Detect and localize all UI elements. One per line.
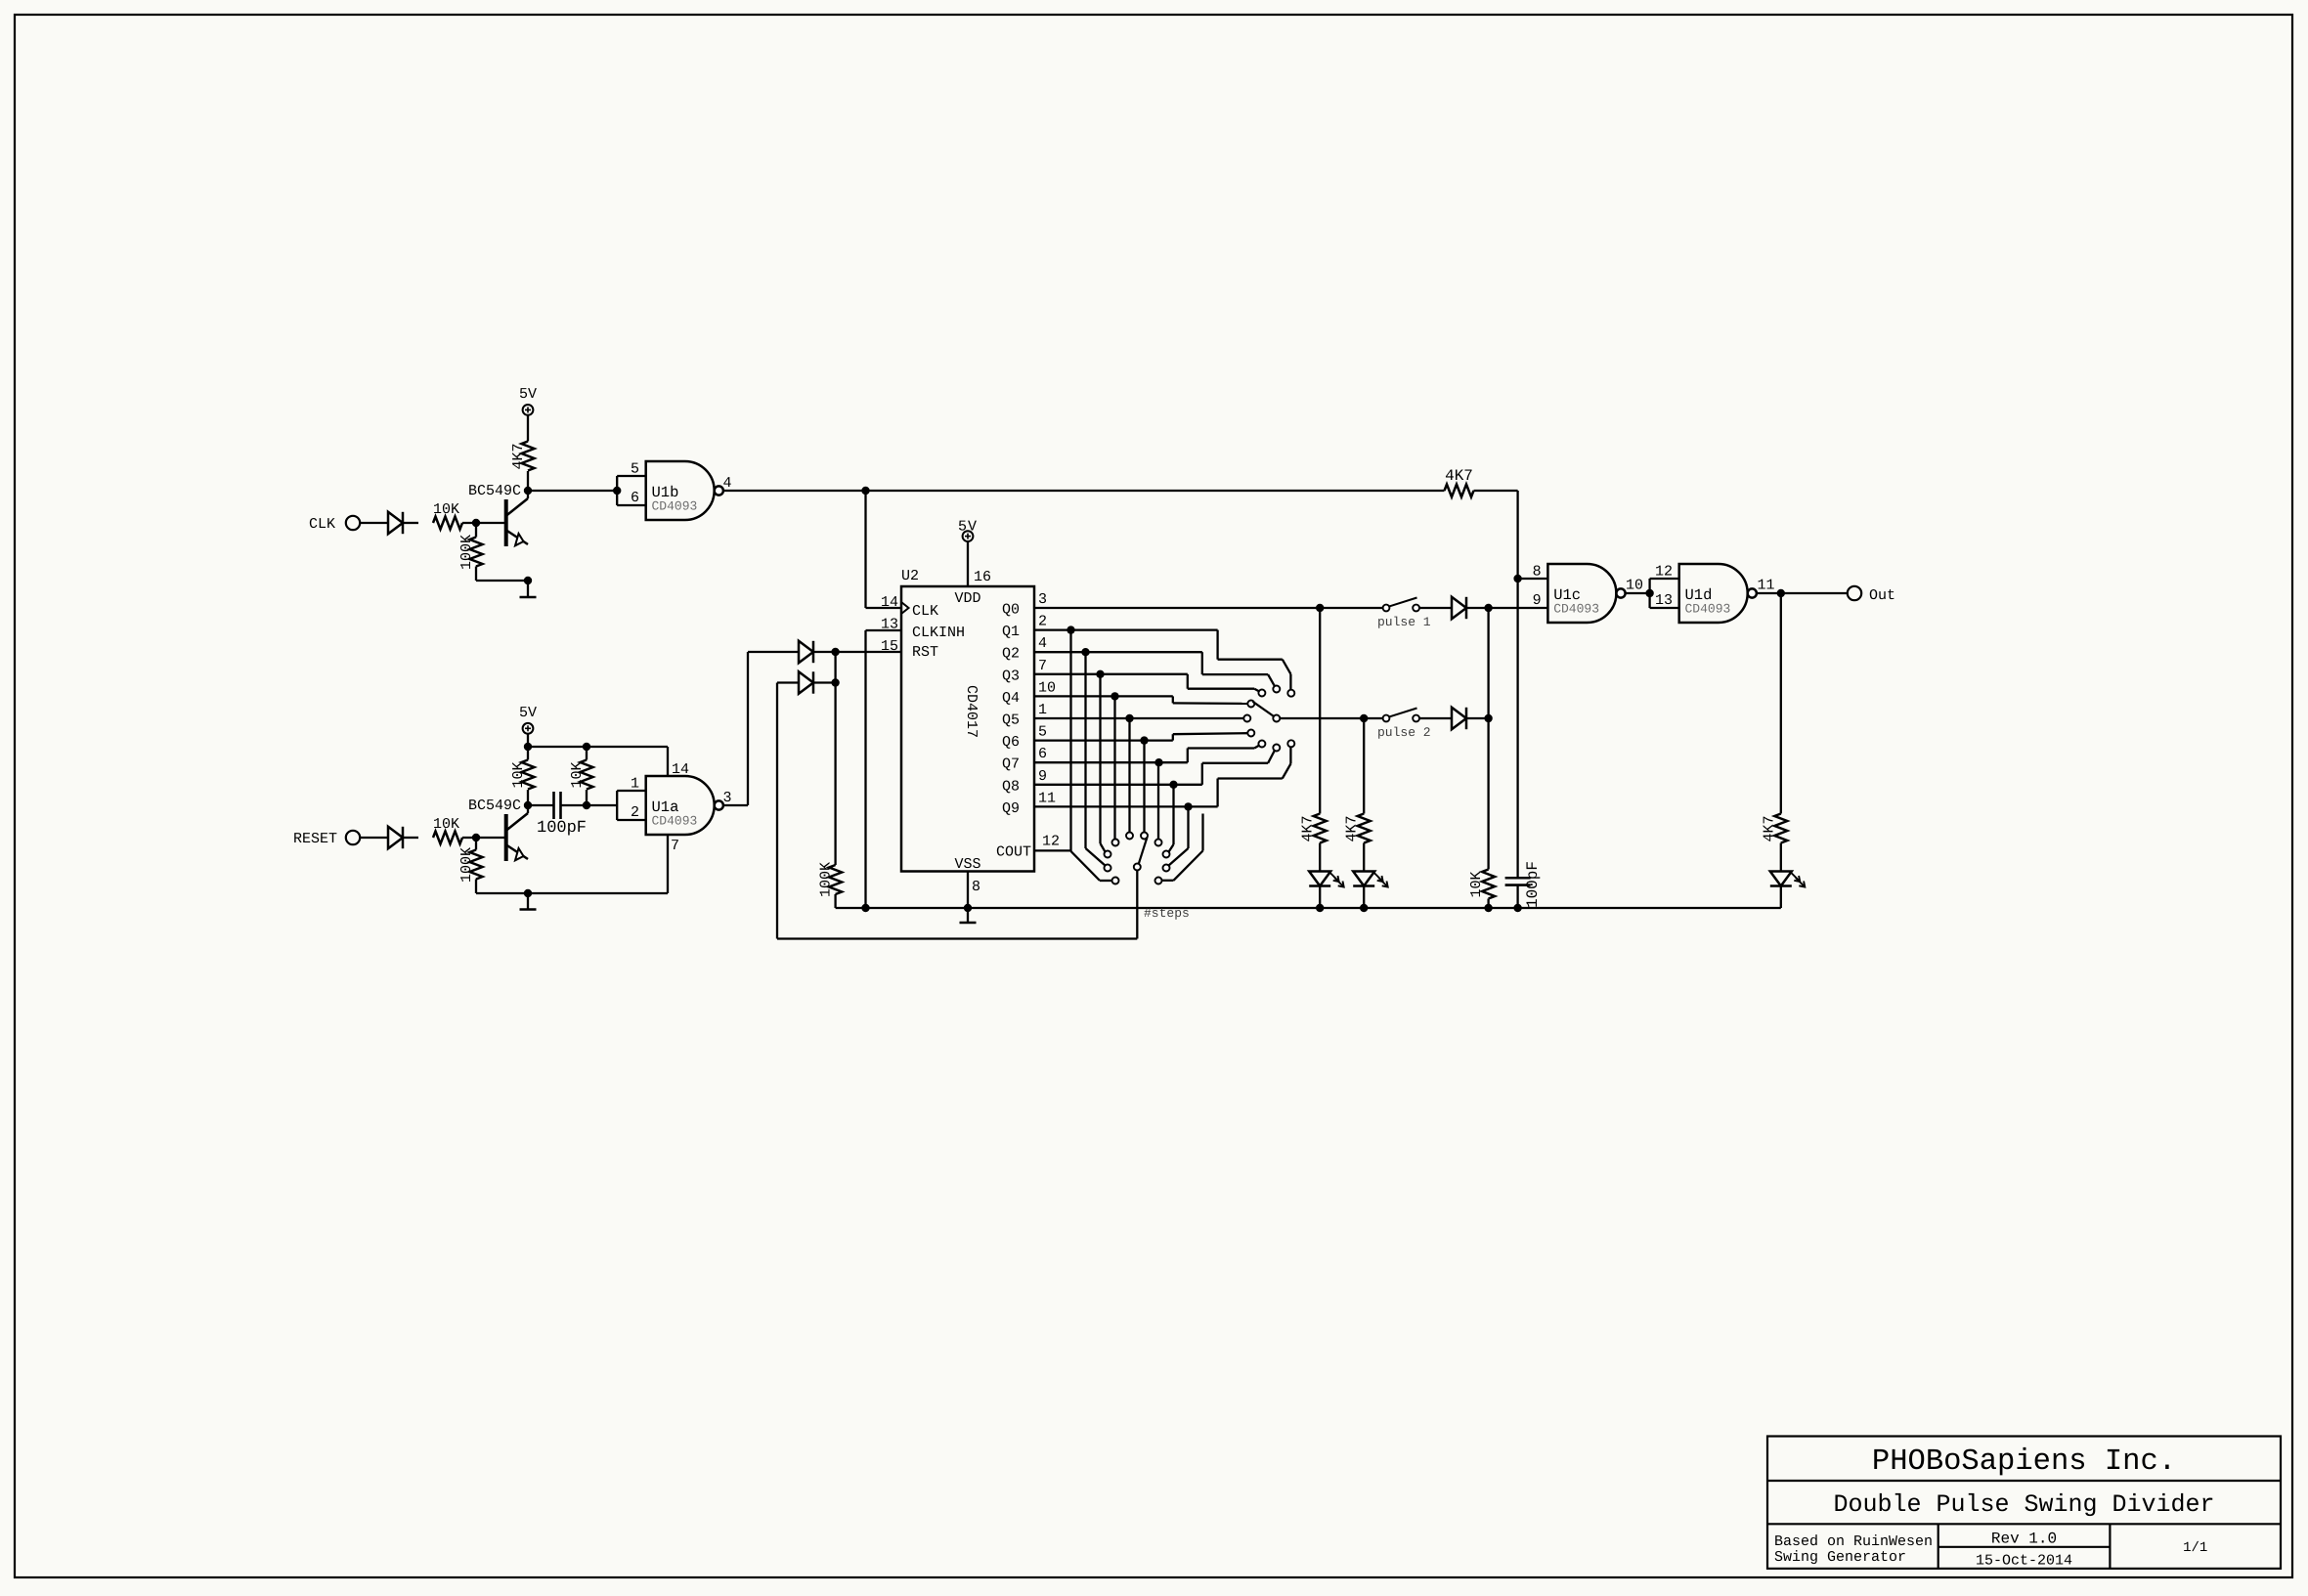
diode D4 (steps reset) [799,671,813,693]
svg-text:100K: 100K [458,847,475,883]
wire Q5 [1034,714,1243,722]
wire [777,683,1137,939]
svg-text:12: 12 [1655,564,1673,581]
svg-text:1: 1 [631,776,639,793]
svg-text:CLK: CLK [309,516,335,533]
svg-text:2: 2 [1038,614,1047,630]
wire Q6 [1034,736,1173,744]
wire Q1 to steps contact [1071,630,1112,881]
wire [475,838,477,893]
wire [1319,843,1321,872]
svg-text:100pF: 100pF [537,819,587,838]
svg-text:Double Pulse Swing Divider: Double Pulse Swing Divider [1833,1490,2214,1519]
svg-text:100K: 100K [818,862,835,897]
svg-text:Based on RuinWesen: Based on RuinWesen [1774,1533,1933,1550]
svg-text:10K: 10K [433,501,459,518]
capacitor C1 100pF [537,792,587,838]
wire [528,804,553,806]
svg-text:CD4093: CD4093 [652,499,698,514]
wire Q3 to pulse2 contact [1188,674,1259,691]
diode D6 (pulse 2) [1452,708,1466,729]
wire [476,577,532,584]
svg-text:5: 5 [631,461,639,478]
svg-text:Q4: Q4 [1002,690,1020,707]
svg-text:Q5: Q5 [1002,712,1020,729]
wire Q9 to steps contact [1169,806,1189,865]
svg-text:Q1: Q1 [1002,624,1020,640]
diode D3 (reset pulse) [799,641,813,663]
node Out terminal [1848,586,1895,604]
wire Q2 to steps contact [1086,652,1106,865]
op-amp U1a input bracket [617,791,646,820]
wire [1419,607,1452,609]
svg-text:Q8: Q8 [1002,778,1020,795]
wire [1363,843,1365,872]
wire Q2 [1034,648,1202,656]
wire Q9 [1034,802,1218,810]
svg-text:16: 16 [974,569,991,585]
svg-text:RESET: RESET [293,831,337,847]
svg-text:pulse 2: pulse 2 [1377,725,1431,740]
resistor R11 4K7 (pulse2 LED) [1344,814,1371,843]
svg-text:CLK: CLK [912,603,938,620]
wire [834,894,836,908]
svg-text:CD4093: CD4093 [1685,602,1731,617]
svg-text:100K: 100K [458,535,475,570]
svg-text:Out: Out [1869,587,1895,604]
wire [527,471,529,491]
resistor R2 100K (CLK) [458,535,483,570]
svg-text:COUT: COUT [996,844,1031,861]
svg-text:1/1: 1/1 [2183,1540,2207,1556]
wire [527,790,529,805]
svg-text:14: 14 [672,761,689,778]
svg-text:10K: 10K [510,761,527,788]
svg-text:5V: 5V [519,705,537,721]
ground (U2 VSS pin 8) [960,872,981,924]
title block [1767,1437,2281,1570]
svg-text:5V: 5V [519,386,537,403]
svg-text:4K7: 4K7 [1300,815,1317,841]
wire [723,487,1445,495]
svg-text:11: 11 [1758,578,1775,594]
wire pin 8 stub [1518,578,1548,580]
transistor Q1 BC549C [468,483,528,546]
svg-text:5V: 5V [958,519,978,536]
switch SW2 pulse 2 rotary selector [1243,686,1294,752]
wire [1780,593,1782,814]
wire Q1 [1034,625,1218,633]
LED D8 (pulse 2) [1353,872,1388,887]
op-amp U1d CD4093 NAND [1655,564,1775,624]
wire [1419,717,1452,719]
diode D5 (pulse 1) [1452,597,1466,619]
wire [528,490,617,492]
op-amp U1d input bracket [1650,579,1679,608]
wire [1513,885,1521,913]
wire [475,523,477,581]
svg-text:6: 6 [631,490,639,506]
wire [1757,589,1848,597]
wire [524,743,532,760]
svg-text:5: 5 [1038,724,1047,741]
wire [814,678,840,686]
op-amp U1a CD4093 NAND [631,776,732,836]
power 5V (RESET stage) [519,705,537,734]
svg-text:10K: 10K [433,816,459,833]
svg-text:12: 12 [1042,833,1060,849]
svg-text:Q6: Q6 [1002,734,1020,751]
resistor R4 4K7 (feedback) [1445,467,1474,497]
wire [360,522,388,524]
svg-text:15-Oct-2014: 15-Oct-2014 [1976,1553,2072,1570]
wire [1513,575,1521,878]
svg-text:CLKINH: CLKINH [912,625,965,641]
svg-text:Q3: Q3 [1002,668,1020,684]
svg-text:7: 7 [1038,658,1047,674]
svg-text:10: 10 [1038,679,1056,696]
svg-text:100pF: 100pF [1524,861,1542,908]
svg-text:Q2: Q2 [1002,646,1020,663]
wire Q6 to steps contact [1143,741,1145,833]
wire Q5 to steps contact [1128,718,1130,832]
wire [462,519,505,527]
transistor Q2 BC549C [468,798,528,861]
svg-text:CD4017: CD4017 [963,685,980,738]
wire Q2 to pulse2 contact [1202,652,1275,685]
svg-text:PHOBoSapiens Inc.: PHOBoSapiens Inc. [1872,1445,2176,1479]
svg-text:CD4093: CD4093 [652,814,698,829]
svg-text:4K7: 4K7 [1344,815,1361,841]
svg-text:3: 3 [1038,591,1047,608]
wire [1487,608,1489,870]
resistor R13 4K7 (out LED) [1761,814,1787,843]
ground [520,893,537,910]
wire Q7 [1034,758,1188,766]
svg-text:VDD: VDD [954,590,980,607]
wire [1466,714,1493,722]
svg-text:9: 9 [1038,768,1047,785]
svg-text:14: 14 [881,594,898,611]
wire [1626,589,1654,597]
wire [561,804,618,806]
wire Q3 [1034,670,1188,678]
wire [1780,886,1782,909]
wire Q8 to steps contact [1169,785,1174,852]
wire Q9 to pulse2 contact [1218,747,1291,806]
wire [834,652,836,865]
wire Q3 to steps contact [1101,674,1106,852]
wire [462,834,505,841]
svg-text:VSS: VSS [954,856,980,873]
wire pin14 [668,747,689,778]
svg-text:13: 13 [881,617,898,633]
wire [1360,886,1368,913]
power 5V (CLK stage) [519,386,537,415]
resistor R9 100K (RST pulldown) [818,862,843,897]
svg-text:CD4093: CD4093 [1553,602,1599,617]
wire [1484,899,1492,913]
resistor R6 100K (RESET) [458,847,483,883]
svg-text:15: 15 [881,638,898,655]
wire [1780,843,1782,872]
resistor R10 4K7 (pulse1 LED) [1300,814,1327,843]
wire [476,889,668,897]
wire Q8 to pulse2 contact [1202,751,1275,784]
svg-text:BC549C: BC549C [468,483,521,499]
wire [403,522,418,524]
wire [814,638,901,656]
svg-text:Q7: Q7 [1002,756,1020,773]
diode D1 (CLK input) [388,512,403,534]
wire [524,487,532,498]
wire Q7 to steps contact [1157,762,1159,839]
wire [1319,608,1321,814]
svg-text:4K7: 4K7 [510,443,527,469]
svg-text:U2: U2 [901,568,919,584]
svg-text:9: 9 [1533,592,1542,609]
capacitor C2 100pF [1505,861,1542,908]
svg-text:Q0: Q0 [1002,602,1020,619]
wire Q0 / pulse 1 net [1034,604,1383,612]
svg-text:4K7: 4K7 [1445,467,1473,485]
switch SW3 pulse 1 [1377,598,1431,630]
svg-text:4: 4 [1038,635,1047,652]
node CLK input terminal [309,516,360,533]
svg-text:RST: RST [912,644,938,661]
svg-text:BC549C: BC549C [468,798,521,814]
wire [360,837,388,839]
wire Q6 to pulse2 contact [1173,733,1247,740]
resistor R12 10K [1468,870,1495,899]
svg-text:13: 13 [1655,592,1673,609]
wire Q4 to pulse2 contact [1173,696,1247,704]
op-amp U1c CD4093 NAND [1533,564,1643,624]
wire Q4 [1034,692,1173,700]
svg-text:4: 4 [723,475,732,492]
IC U2 CD4017 decade counter [881,568,1056,873]
LED D7 (pulse 1) [1309,872,1344,887]
wire [524,801,532,813]
wire [527,734,529,747]
svg-text:1: 1 [1038,702,1047,718]
wire Q7 to pulse2 contact [1188,746,1259,762]
svg-text:#steps: #steps [1144,906,1190,921]
wire [866,491,902,608]
resistor R7 10K (U1a osc) [510,760,535,790]
svg-text:Q9: Q9 [1002,800,1020,817]
wire [1316,886,1324,913]
wire [527,415,529,442]
svg-text:10K: 10K [569,761,586,788]
switch SW1 #steps rotary selector [1105,833,1190,922]
wire [528,743,668,751]
wire CLKINH [866,617,902,909]
resistor R1 10K (CLK) [433,501,462,530]
svg-text:11: 11 [1038,790,1056,806]
svg-text:Swing Generator: Swing Generator [1774,1549,1906,1566]
wire Q8 [1034,781,1202,789]
ground [520,581,537,597]
wire [1466,604,1547,612]
wire [403,837,418,839]
op-amp U1b CD4093 NAND [631,461,732,521]
svg-text:pulse 1: pulse 1 [1377,615,1431,629]
wire Q4 to steps contact [1113,696,1115,839]
wire [1474,491,1518,579]
svg-text:2: 2 [631,804,639,821]
wire pin7 [668,835,679,893]
wire steps position 10 stub [1162,814,1203,881]
svg-text:8: 8 [1533,564,1542,581]
svg-text:7: 7 [671,838,679,854]
LED D9 (output) [1770,872,1806,887]
wire Q1 to pulse2 contact [1218,630,1291,690]
wire ground rail [836,904,1781,912]
svg-text:3: 3 [723,790,732,806]
switch SW4 pulse 2 [1377,709,1431,741]
wire pulse 2 net [1280,714,1382,722]
resistor R5 10K (RESET) [433,816,462,844]
op-amp U1b input bracket [613,476,646,505]
wire [1363,718,1365,814]
wire [583,747,590,809]
resistor R8 10K (U1a osc 2) [569,760,593,790]
svg-text:8: 8 [972,879,980,895]
wire [723,652,799,805]
resistor R3 4K7 (CLK pullup) [510,442,535,471]
diode D2 (RESET input) [388,827,403,848]
svg-text:10K: 10K [1468,871,1485,897]
svg-text:6: 6 [1038,746,1047,762]
svg-text:4K7: 4K7 [1761,815,1777,841]
power 5V (U2 VDD pin 16) [958,519,991,587]
svg-text:10: 10 [1626,578,1643,594]
node RESET input terminal [293,831,360,847]
wire COUT pin 12 [1034,833,1070,850]
svg-text:Rev 1.0: Rev 1.0 [1991,1531,2057,1548]
